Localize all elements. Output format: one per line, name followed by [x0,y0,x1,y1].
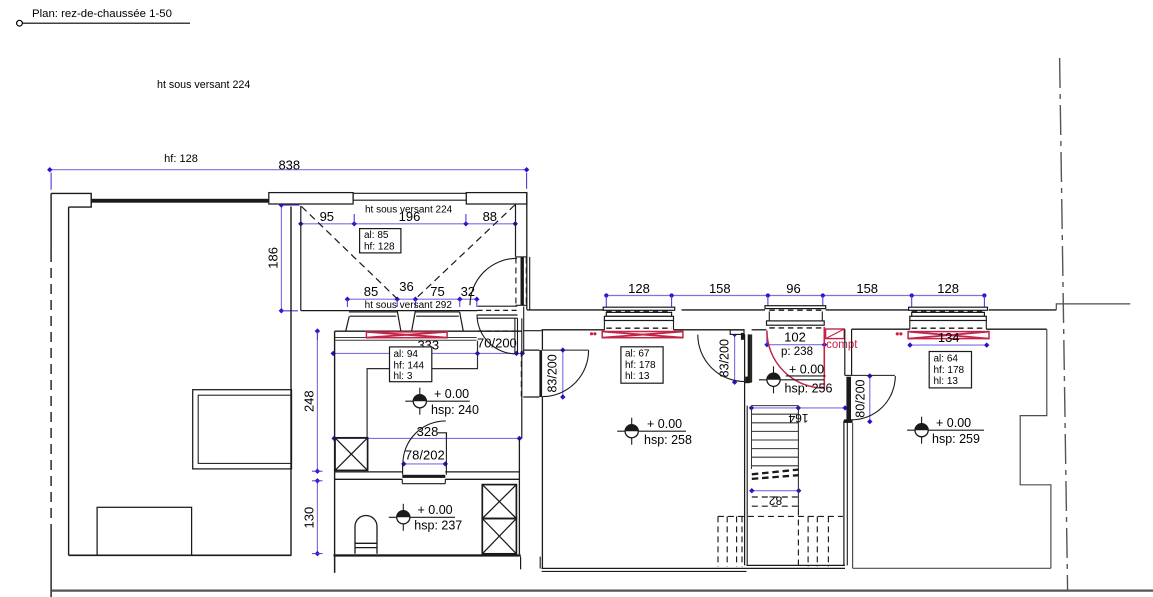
dimension 134 [907,342,989,347]
svg-text:hsp: 258: hsp: 258 [644,433,692,447]
svg-text:32: 32 [461,284,475,299]
level marker living +0.00 hsp258 [617,417,692,447]
wall top band left part [269,193,353,204]
dimension chain 95/196/88 [298,209,518,226]
entrance door red leaf+arc [767,327,825,388]
door 80/200 hall-right room [844,329,895,565]
beam/lintel hf128 (thick) [91,199,269,203]
dashed hatch under-stair left [718,516,843,566]
wall kitchen top [335,330,522,332]
svg-text:102: 102 [784,329,806,344]
wall top band right part [466,193,527,204]
floor line at door (solid+dash) [478,306,518,310]
dimension door 83/200 kitchen-living [546,347,566,399]
wall south exterior face [527,309,1057,311]
svg-text:ht sous versant 224: ht sous versant 224 [157,79,250,91]
svg-text:hf: 178: hf: 178 [625,360,656,371]
svg-text:hsp: 256: hsp: 256 [785,381,833,395]
window reveal trapezoid 1 [346,311,401,332]
svg-text:838: 838 [278,157,300,172]
stairs cut line + dashed treads [752,470,799,507]
svg-text:88: 88 [483,209,497,224]
svg-text:95: 95 [320,209,334,224]
svg-text:Plan: rez-de-chaussée 1-50: Plan: rez-de-chaussée 1-50 [32,8,172,20]
window living 128 [603,307,675,330]
wall top-room interior left [300,206,302,311]
level marker hall +0.00 hsp256 [759,363,833,396]
label door 70/200 [477,336,517,351]
dimension 333 [331,337,526,356]
label box al:85 hf:128 [360,229,401,253]
svg-text:hsp: 237: hsp: 237 [414,518,462,532]
svg-text:78/202: 78/202 [405,448,445,463]
wall left-room right [290,207,292,556]
dimension chain 128/158/96/158/128 [604,281,986,307]
label box al:67 hf:178 hl:13 [621,347,663,383]
furniture rectangle bottom-left [97,507,192,555]
svg-text:+ 0.00: + 0.00 [418,503,453,517]
dimension door 83/200 living-hall [717,332,737,385]
door 70/200 passage (arc+jambs) [477,307,524,355]
svg-text:83/200: 83/200 [546,354,560,392]
window reveal trapezoid 2 [412,311,464,332]
svg-text:+ 0.00: + 0.00 [434,387,469,401]
label box al:64 hf:178 hl:13 [929,352,971,388]
title underline [22,22,190,24]
wall top-room outer right [527,193,530,310]
wall top-room interior right [515,204,517,257]
free text ht sous versant 224 (upper) [157,79,250,91]
svg-text:158: 158 [709,281,731,296]
dimension 82 (rotated) [749,488,801,507]
svg-text:82: 82 [769,493,783,507]
svg-text:83/200: 83/200 [717,339,731,377]
dashed hatch under-stair right [798,510,828,567]
svg-text:hl: 13: hl: 13 [625,371,650,382]
wall kitchen top inner lines [335,338,477,341]
dimension door 80/200 hall-room [854,373,873,424]
dimension 328 with leader [331,424,522,441]
dimension 186 vertical [266,202,300,313]
entrance door frame 96 [765,306,826,328]
svg-text:128: 128 [628,281,650,296]
dimension 838 / hf:128 top [47,153,529,190]
roof slope dashed diagonal left [302,207,398,299]
svg-text:+ 0.00: + 0.00 [789,363,824,377]
door 78/202 (threshold+arc) [402,421,446,478]
svg-text:hf: 128: hf: 128 [364,242,395,253]
power outlet red dots living [590,332,597,335]
wc toilet fixture [355,516,377,554]
wall kitchen left [334,331,336,573]
svg-text:hf: 178: hf: 178 [934,365,965,376]
level marker right +0.00 hsp259 [907,416,984,446]
axis line right (dash-dot) [1060,58,1068,591]
wall party jog top-right [1056,304,1130,310]
dimension door 78/202 [401,448,448,467]
wall left boundary (dashed) [50,193,52,597]
wall stub below wc [335,557,521,573]
power outlet red dots right [896,332,903,335]
roof slope dashed diagonal right [416,205,515,299]
wall left-room bottom [69,554,292,556]
door 83/200 living-hall (leaf+arc) [698,330,752,383]
wall kitchen interior step [367,341,477,438]
floor line top-room bottom [301,310,478,312]
svg-text:compt: compt [826,339,858,351]
svg-text:hsp: 240: hsp: 240 [431,403,479,417]
window sill red right [908,332,989,339]
svg-text:p: 238: p: 238 [781,346,813,358]
wall kitchen/living right face [519,353,521,554]
dimension 248 vertical [302,328,321,474]
property line bottom [52,589,1153,591]
dimension 102 / p:238 entrance [764,329,827,358]
svg-text:hl: 3: hl: 3 [394,371,413,382]
window right 128 [909,307,988,329]
wall living-hall/stair [745,334,752,565]
wall right room outline (gray) [853,329,1051,568]
wall left-room inner-left [68,207,70,555]
svg-text:al: 64: al: 64 [934,354,959,365]
wall kitchen bottom / wc top [335,472,520,484]
svg-text:328: 328 [417,424,439,439]
svg-text:85: 85 [364,284,378,299]
title datum circle [17,20,23,26]
svg-text:134: 134 [938,330,960,345]
svg-text:hf: 128: hf: 128 [164,153,198,165]
text ht sous versant 224 in room [365,204,453,215]
svg-text:hsp: 259: hsp: 259 [932,432,980,446]
door 83/200 kitchen-living (leaf+arc) [521,330,588,569]
window sill red kitchen [366,332,447,338]
svg-text:hl: 13: hl: 13 [934,376,959,387]
door top-room east (leaf+arc) [470,257,527,305]
svg-text:128: 128 [937,281,959,296]
wall wc bottom thick [334,554,521,556]
svg-text:+ 0.00: + 0.00 [936,416,971,430]
stairs treads [752,406,799,510]
svg-text:75: 75 [430,284,444,299]
dimension chain 85/36/75/32 [345,279,480,307]
svg-text:al: 85: al: 85 [364,230,389,241]
dimension 130 vertical [302,471,323,556]
title text Plan: rez-de-chaussee 1-50 [32,8,172,20]
text 134 over sill [938,330,960,345]
svg-text:al: 67: al: 67 [625,349,650,360]
level marker wc +0.00 hsp237 [389,503,463,532]
svg-text:130: 130 [302,507,317,529]
window top (double line) [353,193,466,200]
chimney X-box kitchen [335,438,368,471]
svg-text:248: 248 [302,390,317,412]
window sill red living [602,332,683,338]
wall left-room top-left corner L [51,193,91,207]
wall south interior face [524,329,1047,331]
svg-text:80/200: 80/200 [854,379,868,417]
label box al:94 hf:144 hl:3 [390,347,432,382]
svg-text:+ 0.00: + 0.00 [647,417,682,431]
wall hall bottom [746,565,845,568]
svg-text:ht sous versant 292: ht sous versant 292 [365,300,453,311]
wall living bottom [540,557,746,572]
text ht sous versant 292 [365,300,453,311]
chimney X-box double wc [482,485,516,554]
svg-text:96: 96 [786,281,800,296]
svg-text:36: 36 [399,279,413,294]
svg-text:158: 158 [856,281,878,296]
meter box compt (red) [826,329,859,351]
level marker kitchen +0.00 hsp240 [405,387,479,417]
svg-text:186: 186 [266,247,281,269]
svg-text:ht sous versant 224: ht sous versant 224 [365,204,453,215]
svg-text:al: 94: al: 94 [394,349,419,360]
dimension 164 (rotated) [749,405,848,425]
velux double rectangle [193,390,292,469]
